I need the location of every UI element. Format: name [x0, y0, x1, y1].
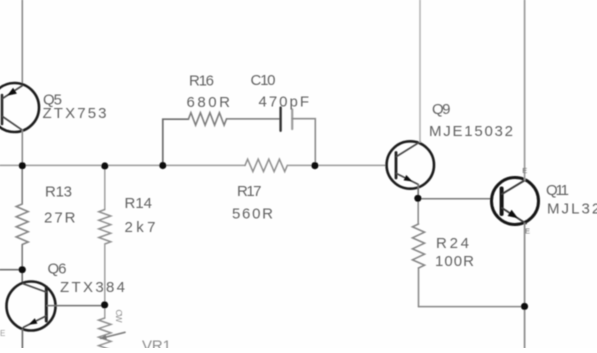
- svg-text:680R: 680R: [187, 94, 231, 111]
- junction dot node: Q9 emitter/R24/Q11 base: [414, 195, 421, 202]
- transistor Q11 emitter arrow (NPN): [508, 210, 518, 219]
- wire: main horizontal net (right part to Q9 base): [287, 164, 387, 166]
- wire: Q5 collector down to main node: [21, 130, 23, 165]
- wire: base node down to VR1: [104, 305, 106, 318]
- svg-text:E: E: [525, 227, 530, 236]
- transistor Q5 emitter line: [3, 86, 23, 99]
- svg-text:E: E: [522, 166, 527, 175]
- svg-text:R24: R24: [436, 235, 469, 252]
- transistor Q9 collector line: [397, 142, 421, 157]
- svg-text:CW: CW: [114, 310, 124, 323]
- transistor Q11 circle: [492, 178, 539, 225]
- resistor R24 zigzag: [413, 224, 425, 268]
- wire: C10 to right riser, down to main net: [292, 119, 315, 166]
- transistor Q6 circle: [7, 282, 56, 331]
- capacitor C10 left plate: [279, 108, 281, 131]
- wire: Q9 emitter down to node: [417, 185, 419, 199]
- transistor Q9 emitter line: [397, 174, 419, 185]
- resistor R13 zigzag: [16, 204, 28, 245]
- svg-text:Q9: Q9: [432, 101, 451, 118]
- svg-text:Q6: Q6: [48, 261, 67, 278]
- transistor Q11 emitter line: [502, 208, 526, 224]
- transistor Q5 circle: [0, 83, 39, 132]
- junction dot node: R24/Q11 emitter: [521, 303, 528, 310]
- svg-text:R14: R14: [125, 195, 153, 212]
- transistor Q5 emitter arrow (PNP): [7, 88, 17, 96]
- transistor Q11 collector line: [502, 180, 525, 194]
- wire: R14 bottom to Q6 base node: [104, 244, 106, 305]
- wire: node to R14 top: [104, 165, 106, 209]
- svg-text:2k7: 2k7: [125, 219, 156, 236]
- transistor Q9 base bar: [395, 153, 398, 179]
- wire: R16 to C10: [227, 118, 280, 120]
- svg-text:MJL3281: MJL3281: [547, 201, 597, 218]
- potentiometer VR1 zigzag: [99, 318, 111, 352]
- resistor R17 zigzag: [245, 159, 287, 171]
- junction dot node: main/R14: [101, 162, 108, 169]
- svg-text:E: E: [0, 329, 5, 338]
- wire: Q6 base to base node: [47, 305, 105, 307]
- transistor Q11 base bar: [500, 189, 504, 215]
- wire: Q5 emitter to top edge: [21, 0, 23, 85]
- transistor Q5 collector line: [3, 117, 23, 131]
- transistor Q9 emitter arrow (NPN): [404, 175, 413, 182]
- resistor R16 zigzag: [189, 113, 227, 125]
- wire: node down to Q6 collector: [21, 270, 23, 284]
- capacitor C10 right plate: [291, 110, 293, 130]
- junction dot node: main/feedback left: [159, 162, 166, 169]
- svg-text:R17: R17: [237, 183, 262, 200]
- svg-text:560R: 560R: [232, 206, 273, 223]
- resistor R14 zigzag: [99, 210, 111, 245]
- wire: Q11 collector to top edge: [524, 0, 526, 180]
- svg-text:R13: R13: [45, 184, 72, 201]
- wire: Q11 emitter to bottom edge: [524, 224, 526, 349]
- wire: R24 bottom across to Q11 emitter: [419, 306, 525, 308]
- svg-text:VR1: VR1: [142, 338, 171, 349]
- svg-text:100R: 100R: [435, 253, 474, 270]
- wire: feedback left riser: [163, 119, 189, 165]
- svg-text:R16: R16: [189, 73, 214, 90]
- transistor Q6 emitter arrow (NPN): [29, 318, 38, 325]
- svg-text:C10: C10: [251, 72, 276, 89]
- wire: Q9 collector to top edge: [419, 0, 421, 142]
- svg-text:27R: 27R: [44, 210, 76, 227]
- junction dot node: Q6 base/R14/VR1: [101, 301, 108, 308]
- svg-text:Q11: Q11: [546, 182, 569, 199]
- wire: left stub into Q6 collector node: [0, 269, 22, 271]
- potentiometer VR1 wiper arrow: [101, 332, 125, 338]
- svg-text:470pF: 470pF: [259, 94, 310, 111]
- wire: R13 bottom to Q6 node: [21, 245, 23, 270]
- wire: main horizontal net at y=165 (left part): [0, 164, 245, 166]
- transistor Q6 base bar: [45, 287, 48, 321]
- wire: Q9 emitter node to Q11 base: [418, 198, 492, 200]
- wire: node to R24 top: [417, 198, 419, 224]
- junction dot node: main/feedback right: [311, 162, 318, 169]
- junction dot node: R13/Q6 collector: [19, 266, 26, 273]
- junction dot node: main/Q5-R13: [19, 162, 26, 169]
- wire: Q6 emitter to bottom edge: [21, 330, 23, 349]
- transistor Q9 circle: [387, 141, 434, 188]
- transistor Q6 emitter line: [24, 316, 47, 327]
- transistor Q5 base bar: [1, 95, 4, 124]
- wire: R24 bottom leg: [418, 268, 420, 307]
- transistor Q6 collector line: [23, 284, 46, 292]
- wire: node to R13 top: [21, 165, 23, 204]
